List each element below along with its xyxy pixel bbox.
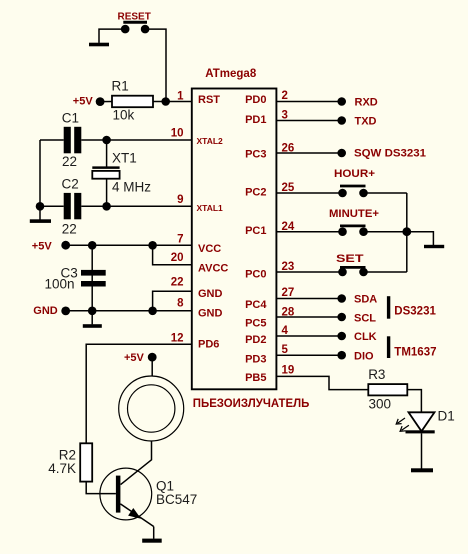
svg-text:PD3: PD3: [245, 353, 266, 365]
wire PD3 to DIO: [277, 354, 342, 356]
svg-text:1: 1: [177, 90, 184, 102]
transistor Q1 emitter arrowhead: [128, 508, 141, 519]
wire button bus to ground: [407, 232, 434, 246]
svg-text:C2: C2: [62, 177, 79, 192]
svg-text:HOUR+: HOUR+: [334, 168, 375, 180]
wire GND pin22 branch: [153, 291, 191, 311]
wire C3 to ground: [91, 311, 93, 325]
svg-text:10: 10: [171, 128, 184, 140]
ground (buttons): [424, 245, 444, 248]
svg-text:300: 300: [369, 397, 392, 412]
svg-text:22: 22: [62, 221, 77, 236]
svg-text:RXD: RXD: [355, 97, 378, 109]
wire RESET right contact to RST node: [145, 29, 166, 101]
wire PC1 to MINUTE+ button: [277, 231, 343, 233]
node C3 bottom junction: [88, 307, 97, 316]
node left rail / C2 junction: [36, 202, 45, 211]
svg-text:ATmega8: ATmega8: [205, 68, 257, 80]
node C3 top junction: [88, 241, 97, 250]
svg-text:10k: 10k: [113, 108, 135, 123]
svg-text:20: 20: [171, 252, 184, 264]
svg-text:27: 27: [282, 287, 295, 299]
svg-text:12: 12: [171, 332, 184, 344]
svg-text:CLK: CLK: [354, 331, 377, 343]
svg-text:25: 25: [282, 182, 295, 194]
svg-text:2: 2: [282, 90, 288, 102]
svg-text:GND: GND: [198, 288, 223, 300]
wire PB5 to R3: [277, 376, 369, 389]
svg-text:TM1637: TM1637: [394, 346, 436, 358]
svg-text:R1: R1: [112, 78, 129, 93]
svg-text:TXD: TXD: [355, 116, 377, 128]
svg-text:ПЬЕЗОИЗЛУЧАТЕЛЬ: ПЬЕЗОИЗЛУЧАТЕЛЬ: [193, 396, 310, 410]
wire PD0 to RXD: [277, 101, 342, 103]
wire left rail to C2: [40, 205, 64, 207]
ground (Q1 emitter): [142, 539, 162, 543]
wire PC5 to SCL: [277, 316, 342, 318]
svg-text:SCL: SCL: [354, 313, 376, 325]
node TXD terminal: [337, 116, 346, 125]
svg-text:4 MHz: 4 MHz: [112, 180, 151, 195]
svg-text:PC2: PC2: [245, 186, 266, 198]
wire PD2 to CLK: [277, 335, 342, 337]
crystal XT1: [92, 168, 119, 179]
svg-text:+5V: +5V: [124, 352, 145, 364]
svg-text:PC3: PC3: [245, 148, 266, 160]
junction node RST/R1/RESET: [161, 97, 170, 106]
wire +5V to R1: [100, 101, 112, 103]
wire AVCC branch: [153, 245, 191, 264]
svg-text:RST: RST: [198, 94, 220, 106]
wire left rail to C1: [40, 139, 64, 141]
svg-text:4.7K: 4.7K: [48, 461, 76, 476]
svg-text:SDA: SDA: [354, 294, 377, 306]
svg-text:GND: GND: [198, 308, 223, 320]
svg-text:22: 22: [62, 154, 77, 169]
svg-text:PB5: PB5: [245, 372, 266, 384]
LED D1 triangle: [409, 412, 435, 431]
svg-text:+5V: +5V: [32, 241, 53, 253]
svg-text:PC4: PC4: [245, 299, 267, 311]
wire PC0 to SET button: [277, 271, 343, 273]
node CLK terminal: [337, 332, 346, 341]
svg-text:100n: 100n: [45, 277, 75, 292]
IC U1 ATmega8 body: [192, 89, 277, 390]
wire R2 to Q1 base: [86, 482, 116, 494]
wire button ground bus: [406, 193, 408, 272]
pushbutton SW1 RESET left contact: [121, 25, 130, 34]
transistor Q1 base bar: [116, 476, 121, 513]
pushbutton SW2 HOUR+: [338, 186, 368, 197]
wire +5V to VCC: [66, 244, 191, 246]
transistor Q1 body: [100, 468, 152, 520]
pushbutton SW1 RESET actuator bar: [123, 21, 147, 24]
wire D1 to ground: [421, 433, 423, 468]
pushbutton SW1 RESET right contact: [141, 25, 150, 34]
svg-text:9: 9: [177, 194, 183, 206]
svg-text:3: 3: [282, 109, 288, 121]
svg-text:XT1: XT1: [112, 151, 137, 166]
svg-text:BC547: BC547: [156, 492, 197, 507]
svg-text:19: 19: [282, 364, 295, 376]
wire PC4 to SDA: [277, 298, 342, 300]
LED D1 cathode bar: [406, 430, 435, 433]
wire C3 vertical: [91, 245, 93, 310]
svg-text:SET: SET: [336, 253, 364, 265]
capacitor C2: [64, 193, 82, 219]
wire R1 to RST: [153, 101, 191, 103]
wire piezo to Q1 collector: [121, 441, 152, 485]
node RXD terminal: [337, 97, 346, 106]
svg-text:D1: D1: [438, 408, 455, 423]
wire HOUR+ to button bus: [364, 192, 407, 194]
wire GND to pin 8: [66, 310, 191, 312]
wire C1 to XTAL2: [81, 139, 191, 141]
node SCL terminal: [337, 313, 346, 322]
svg-text:PD6: PD6: [198, 338, 219, 350]
svg-text:DIO: DIO: [354, 351, 374, 363]
capacitor C3: [81, 270, 106, 287]
svg-text:VCC: VCC: [198, 243, 221, 255]
svg-text:PD1: PD1: [245, 114, 266, 126]
piezo buzzer BQ1: [119, 376, 184, 441]
wire R3 to D1: [407, 390, 421, 413]
svg-text:DS3231: DS3231: [394, 306, 436, 318]
svg-text:PC0: PC0: [245, 269, 266, 281]
wire XT1 to XTAL1 node: [106, 179, 108, 207]
svg-text:7: 7: [177, 233, 183, 245]
wire XTAL2 node down to XT1: [106, 140, 108, 167]
svg-text:XTAL1: XTAL1: [197, 203, 224, 213]
wire MINUTE+ to button bus: [364, 231, 407, 233]
svg-text:PC5: PC5: [245, 318, 266, 330]
svg-text:+5V: +5V: [73, 96, 94, 108]
LED D1 emission arrow 2: [400, 425, 409, 431]
node XTAL1 junction: [102, 202, 111, 211]
wire +5V to piezo: [151, 357, 153, 376]
svg-text:AVCC: AVCC: [198, 263, 228, 275]
svg-text:8: 8: [177, 298, 184, 310]
wire C2 to XTAL1: [81, 205, 191, 207]
wire PD1 to TXD: [277, 120, 342, 122]
pushbutton SW3 MINUTE+: [338, 226, 368, 236]
svg-text:22: 22: [171, 276, 184, 288]
LED D1 emission arrow 1: [396, 418, 405, 424]
node button bus junction: [402, 227, 411, 236]
resistor R1: [112, 96, 153, 108]
wire RESET left contact to ground: [99, 29, 125, 43]
ground (D1): [411, 468, 433, 472]
wire SET to button bus: [364, 271, 407, 273]
svg-text:GND: GND: [33, 305, 58, 317]
ground (under C3): [83, 324, 102, 328]
svg-text:XTAL2: XTAL2: [197, 136, 224, 146]
svg-text:R3: R3: [368, 367, 385, 382]
capacitor C1: [64, 127, 82, 154]
wire PC3 to SQW: [277, 152, 342, 154]
svg-text:SQW DS3231: SQW DS3231: [354, 147, 426, 159]
node SDA terminal: [337, 294, 346, 303]
ground (left rail under C1/C2): [30, 219, 51, 223]
node GND branch junction: [148, 307, 157, 316]
wire Q1 emitter to ground: [153, 527, 155, 539]
svg-text:5: 5: [282, 344, 289, 356]
node DIO terminal: [337, 351, 346, 360]
svg-text:PD0: PD0: [245, 94, 266, 106]
wire PD6 to R2: [86, 344, 191, 443]
bracket DS3231: [387, 296, 390, 319]
wire PC2 to HOUR+ button: [277, 192, 343, 194]
ground (top-left, RESET): [89, 43, 109, 47]
node SQW terminal: [337, 149, 346, 158]
svg-text:4: 4: [282, 325, 289, 337]
pushbutton SW4 SET: [338, 267, 368, 276]
bracket TM1637: [387, 336, 390, 358]
node XTAL2 junction: [102, 136, 111, 145]
svg-text:C1: C1: [62, 110, 79, 125]
wire left rail vertical: [39, 140, 41, 220]
svg-text:PD2: PD2: [245, 334, 266, 346]
svg-text:23: 23: [282, 261, 295, 273]
node AVCC branch junction: [148, 241, 157, 250]
transistor Q1 emitter: [120, 504, 153, 527]
svg-text:PC1: PC1: [245, 225, 266, 237]
resistor R2: [80, 443, 92, 481]
svg-text:MINUTE+: MINUTE+: [329, 208, 379, 220]
resistor R3: [368, 384, 407, 395]
